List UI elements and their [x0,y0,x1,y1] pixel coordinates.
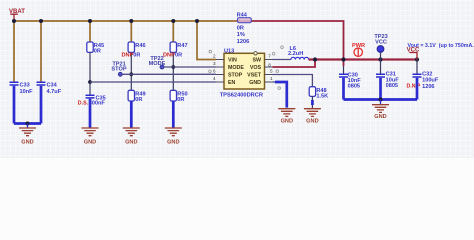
svg-text:R47: R47 [177,43,187,49]
capacitor C32 [407,72,439,91]
svg-text:4.7uF: 4.7uF [47,89,62,95]
resistor R45 [87,42,104,54]
wire output gnd rail [344,98,418,101]
wire gnd stem [27,124,29,129]
wire VBAT feed to VIN pin [197,21,216,60]
svg-text:GND: GND [125,139,137,145]
wire EN [90,81,216,83]
indicator PWR [352,43,365,57]
svg-text:0R: 0R [135,97,142,103]
svg-text:0805: 0805 [348,83,360,89]
svg-text:DNP: DNP [122,53,134,59]
svg-text:100uF: 100uF [422,77,439,83]
wire C32 to gnd rail [416,78,419,100]
svg-text:0R: 0R [94,48,101,54]
pin marker dot GND [278,87,281,90]
svg-text:6: 6 [213,69,216,74]
svg-text:D.S.: D.S. [78,100,89,106]
wire R44 to VCC rail [252,21,344,66]
resistor R49 [128,90,145,103]
svg-text:GND: GND [306,119,318,125]
wire VBAT drop to R47 [172,21,174,42]
test point TP23 [374,34,387,59]
resistor R44 [237,13,252,46]
wire C33 to gnd rail [13,86,16,124]
svg-text:VCC: VCC [375,40,387,46]
junction R44/C30 [341,57,345,61]
svg-text:GND: GND [249,80,261,86]
pin marker dot VIN [209,50,212,53]
svg-text:VOS: VOS [250,65,262,71]
wire gnd stem [380,100,382,105]
svg-text:EN: EN [228,80,236,86]
svg-text:0R: 0R [133,53,140,59]
capacitor C30 [339,73,361,90]
capacitor C31 [376,72,399,90]
svg-text:3: 3 [213,61,216,66]
wire R45 to EN junction and C35 [89,52,91,95]
svg-text:DNP: DNP [163,53,175,59]
svg-text:MODE: MODE [228,65,244,71]
svg-text:VSET: VSET [247,73,262,79]
test point TP21 [111,62,126,77]
ground R50 [165,128,182,145]
power port VBAT [9,9,25,21]
wire VBAT top rail [14,20,237,22]
svg-text:STOP: STOP [228,73,243,79]
wire C31 top pin [380,60,382,74]
capacitor C35 [78,95,106,106]
svg-text:5: 5 [270,69,273,74]
wire C31 to gnd rail [379,78,382,100]
capacitor C33 [10,82,34,95]
svg-text:1%: 1% [237,32,245,38]
svg-text:GND: GND [281,119,293,125]
wire C34 to gnd rail [40,86,43,124]
test point TP22 [149,56,166,69]
svg-text:C33: C33 [20,83,30,89]
resistor R46 [122,42,146,59]
wire C35 to gnd [89,99,92,128]
power port VCC [407,48,420,60]
junction VIN feed [195,19,199,23]
svg-text:GND: GND [21,139,33,145]
svg-text:GND: GND [167,139,179,145]
svg-text:STOP: STOP [111,67,126,73]
wire R47 to MODE junction [172,52,174,90]
ground U13 [278,109,295,125]
svg-text:1: 1 [270,76,273,81]
wire GND pin drop [273,81,276,83]
svg-text:10nF: 10nF [20,89,34,95]
junction R46 [129,19,133,23]
junction EN [88,80,92,84]
junction gnd rail [26,122,30,126]
resistor R48 [309,87,328,100]
ground C35 [82,128,99,145]
capacitor C34 [37,82,62,95]
wire STOP [122,73,216,75]
junction VBAT/C33 [12,19,16,23]
svg-text:VIN: VIN [228,58,237,64]
svg-text:1206: 1206 [422,84,434,90]
svg-text:SW: SW [252,58,261,64]
svg-text:0R: 0R [237,25,244,31]
svg-text:0R: 0R [177,97,184,103]
pin marker dot VSET [276,70,279,73]
junction TP23 [378,57,382,61]
svg-text:2.2uH: 2.2uH [288,51,303,57]
wire R49 to gnd [130,101,133,128]
svg-text:2: 2 [213,54,216,59]
junction R45 [88,19,92,23]
svg-text:GND: GND [84,139,96,145]
wire VBAT drop to C34 [40,21,42,82]
junction VCC port [415,57,419,61]
svg-text:1.5K: 1.5K [316,93,328,99]
svg-text:7: 7 [268,54,271,59]
wire VOS [273,60,316,68]
wire gnd rail C33-C34 [14,122,41,125]
wire VBAT drop to C33 [13,21,15,82]
pin marker dot SW [272,52,275,55]
ground R48 [304,109,321,125]
junction R47 [171,19,175,23]
junction MODE [171,65,175,69]
pin marker dot L [281,46,284,49]
svg-text:1206: 1206 [237,39,249,45]
wire VBAT drop to R46 [130,21,132,42]
svg-text:R46: R46 [135,43,145,49]
wire VSET to R48 [273,75,313,87]
svg-text:GND: GND [374,114,386,120]
wire VBAT drop to R45 [89,21,91,42]
ground output [372,105,389,120]
svg-text:8: 8 [268,62,271,67]
svg-text:0805: 0805 [386,83,398,89]
junction C34 [39,19,43,23]
resistor R47 [163,42,188,59]
wire MODE [164,66,216,68]
resistor R50 [170,90,187,103]
op-amp U13 TPS62400 [213,48,273,98]
junction VOS [313,57,317,61]
wire R46 to STOP junction [130,52,132,90]
wire C32 top pin [416,60,418,74]
svg-text:4: 4 [213,76,216,81]
wire SW to inductor [273,59,292,61]
pin marker dot STOP [209,70,212,73]
svg-text:Vout = 3.1V (up to 750mA.: Vout = 3.1V (up to 750mA. [408,43,474,49]
svg-text:C34: C34 [47,83,58,89]
wire R44 thin to C30 [343,66,345,74]
ground R49 [123,128,140,145]
inductor L6 [288,46,309,59]
junction output gnd [379,98,383,102]
ground C33/C34 [19,128,36,145]
svg-text:TPS62400DRCR: TPS62400DRCR [220,92,263,98]
wire VCC rail [309,58,417,60]
wire C30 to gnd rail [342,78,345,100]
junction STOP [129,72,133,76]
svg-text:D.N.P: D.N.P [407,84,421,90]
wire R48 to gnd [311,96,313,100]
wire R50 to gnd [172,101,175,128]
svg-text:800nF: 800nF [89,100,106,106]
svg-text:0R: 0R [175,53,182,59]
